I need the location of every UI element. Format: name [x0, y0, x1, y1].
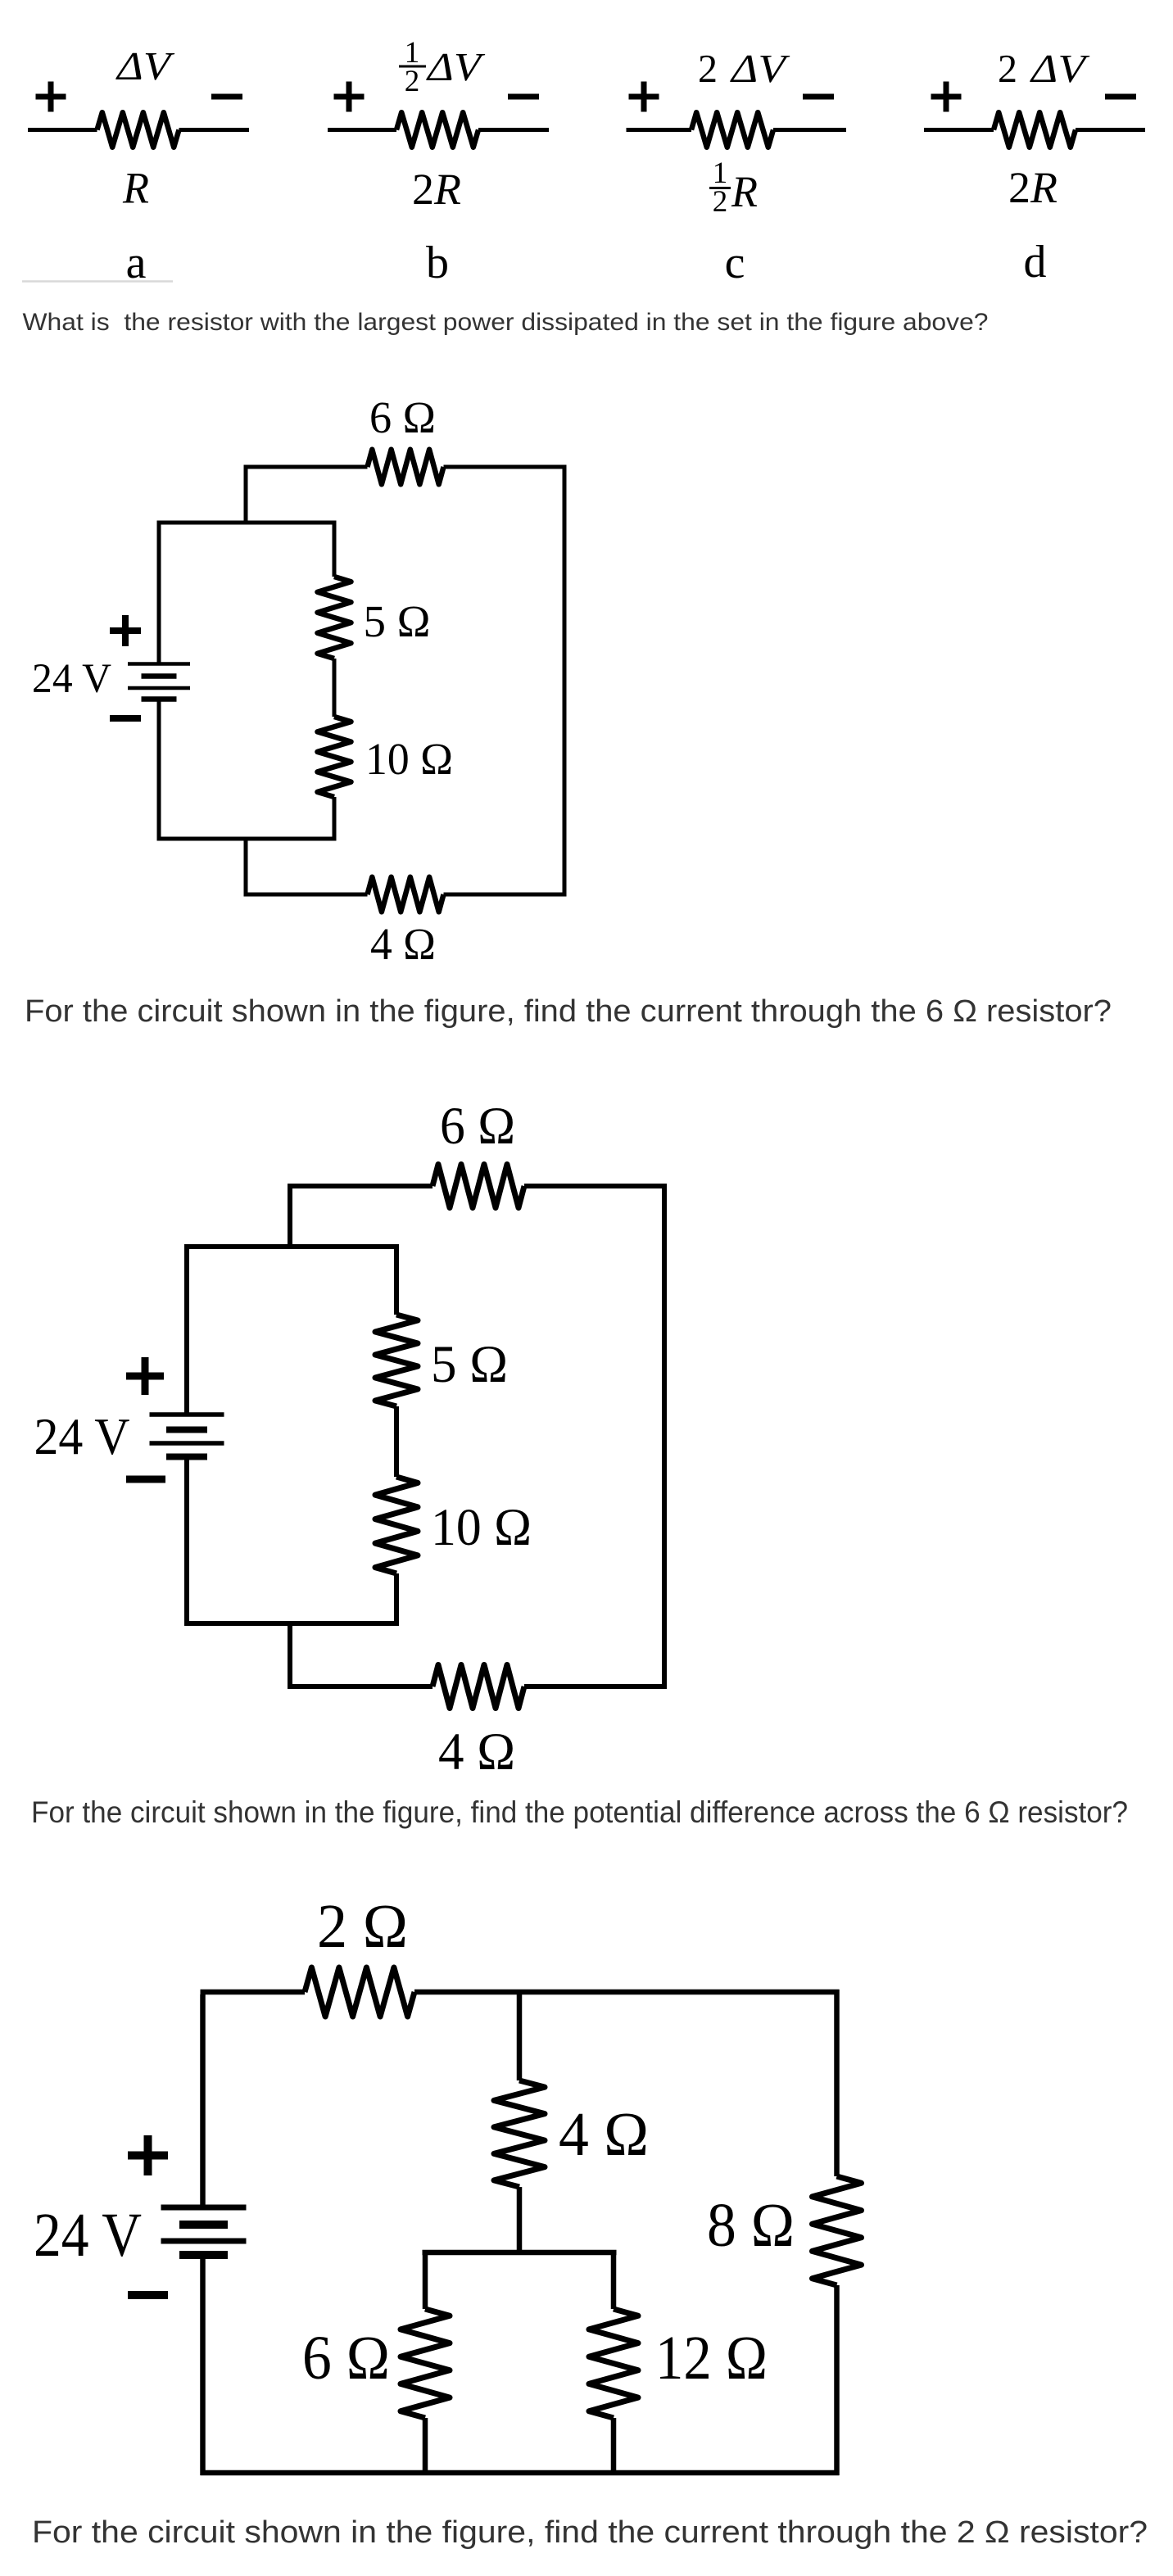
resistor 10 ohm (circuit 2): [375, 1477, 418, 1573]
svg-text:12 Ω: 12 Ω: [655, 2324, 768, 2393]
resistor 5 ohm (circuit 1): [318, 577, 351, 659]
svg-text:2: 2: [998, 46, 1017, 91]
resistance label ½R fraction (unit c): [709, 156, 731, 219]
svg-text:5 Ω: 5 Ω: [364, 596, 431, 646]
wire 6 ohm branch lower (circuit 3): [423, 2418, 428, 2473]
wire right lead (unit c): [773, 128, 846, 132]
svg-text:2: 2: [698, 46, 718, 91]
wire top right segment (circuit 1): [444, 465, 567, 469]
wire inner right lower (circuit 1): [333, 797, 337, 841]
wire left lead (unit d): [924, 128, 994, 132]
plus terminal battery (circuit 3): [128, 2135, 168, 2175]
svg-text:5 Ω: 5 Ω: [431, 1335, 508, 1394]
resistor 6 ohm (circuit 2): [433, 1165, 524, 1208]
minus terminal (unit d): [1105, 94, 1136, 100]
wire top left segment (circuit 2): [288, 1184, 433, 1188]
wire inner bottom (circuit 2): [184, 1621, 399, 1626]
svg-text:24 V: 24 V: [34, 2201, 142, 2270]
wire between 5 ohm and 10 ohm (circuit 2): [394, 1406, 399, 1477]
wire battery top lead (circuit 2): [184, 1244, 189, 1414]
svg-text:ΔV: ΔV: [426, 44, 486, 89]
plus terminal (unit a): [36, 82, 66, 112]
svg-text:2 Ω: 2 Ω: [317, 1892, 408, 1961]
svg-text:b: b: [426, 238, 449, 288]
answer blank underline (unit a): [22, 280, 173, 283]
wire bottom left segment (circuit 1): [244, 893, 368, 897]
wire left lead (unit c): [627, 128, 692, 132]
wire bottom right segment (circuit 2): [524, 1684, 667, 1689]
minus terminal (unit b): [508, 94, 539, 100]
wire top left segment (circuit 1): [244, 465, 368, 469]
resistor (unit d): [994, 112, 1076, 147]
wire inner bottom (circuit 1): [157, 837, 337, 841]
svg-text:R: R: [731, 167, 758, 216]
svg-text:4 Ω: 4 Ω: [370, 919, 436, 969]
wire bottom-left stub (circuit 1): [244, 839, 248, 897]
wire right side (circuit 2): [662, 1184, 667, 1689]
resistor 6 ohm (circuit 1): [368, 450, 444, 485]
wire left lead (unit a): [28, 128, 97, 132]
wire left side upper (circuit 3): [200, 1994, 206, 2207]
svg-text:R: R: [1030, 163, 1058, 212]
svg-text:For the circuit shown in the f: For the circuit shown in the figure, fin…: [31, 1795, 1128, 1829]
resistor 12 ohm (circuit 3): [589, 2309, 638, 2418]
wire right lead (unit b): [478, 128, 549, 132]
minus terminal (unit a): [211, 94, 242, 100]
wire battery top lead (circuit 1): [157, 521, 161, 664]
svg-text:R: R: [122, 164, 149, 213]
svg-text:4 Ω: 4 Ω: [438, 1723, 515, 1781]
wire bottom left segment (circuit 2): [288, 1684, 433, 1689]
svg-text:2: 2: [412, 165, 434, 214]
plus terminal (unit b): [334, 82, 365, 112]
plus terminal (unit c): [629, 82, 659, 112]
battery 24 V (circuit 1): [128, 664, 190, 699]
wire inner top (circuit 1): [157, 521, 337, 525]
svg-text:6 Ω: 6 Ω: [440, 1097, 515, 1156]
battery 24 V (circuit 3): [161, 2207, 247, 2255]
svg-text:4 Ω: 4 Ω: [559, 2100, 649, 2169]
resistor (unit c): [691, 112, 773, 147]
svg-text:d: d: [1024, 237, 1047, 287]
svg-text:For the circuit shown in the f: For the circuit shown in the figure, fin…: [25, 994, 1112, 1029]
minus terminal (unit c): [803, 94, 834, 100]
wire top left segment (circuit 3): [201, 1990, 306, 1995]
svg-text:ΔV: ΔV: [115, 43, 175, 88]
wire right lead (unit a): [179, 128, 250, 132]
wire inner right lower (circuit 2): [394, 1573, 399, 1626]
svg-text:What is the resistor with the: What is the resistor with the largest po…: [23, 309, 989, 336]
wire 12 ohm branch lower (circuit 3): [611, 2418, 617, 2473]
battery 24 V (circuit 2): [150, 1415, 224, 1457]
wire middle branch lower (circuit 3): [517, 2187, 523, 2252]
wire bottom right segment (circuit 1): [444, 893, 567, 897]
svg-text:24 V: 24 V: [34, 1407, 130, 1465]
wire top-left stub (circuit 1): [244, 465, 248, 523]
wire battery bottom lead (circuit 1): [157, 699, 161, 841]
plus terminal (unit d): [931, 82, 962, 112]
wire 6 ohm branch upper (circuit 3): [423, 2252, 428, 2309]
svg-text:c: c: [725, 238, 745, 288]
wire inner right upper (circuit 1): [333, 521, 337, 577]
resistor 6 ohm (circuit 3): [401, 2309, 450, 2418]
minus terminal battery (circuit 2): [126, 1476, 165, 1483]
resistor 8 ohm (circuit 3): [813, 2176, 862, 2285]
plus terminal battery (circuit 2): [126, 1357, 164, 1395]
wire top-left stub (circuit 2): [288, 1184, 292, 1247]
wire bottom (circuit 3): [201, 2470, 840, 2476]
svg-text:6 Ω: 6 Ω: [369, 392, 436, 442]
wire middle branch upper (circuit 3): [517, 1992, 523, 2080]
wire right side upper (circuit 3): [834, 1990, 840, 2176]
minus terminal battery (circuit 3): [128, 2291, 168, 2299]
wire bottom-left stub (circuit 2): [288, 1623, 292, 1689]
resistor (unit a): [97, 112, 179, 147]
svg-text:ΔV: ΔV: [1030, 46, 1090, 91]
wire left side lower (circuit 3): [200, 2256, 206, 2475]
value label ½ΔV fraction (unit b): [399, 36, 426, 98]
svg-text:For the circuit shown in the f: For the circuit shown in the figure, fin…: [32, 2515, 1148, 2550]
wire right side lower (circuit 3): [834, 2285, 840, 2475]
wire inner top (circuit 2): [184, 1244, 399, 1249]
resistor (unit b): [396, 112, 478, 147]
svg-text:2: 2: [1008, 163, 1030, 212]
svg-text:6 Ω: 6 Ω: [302, 2324, 390, 2393]
svg-text:8 Ω: 8 Ω: [707, 2191, 795, 2260]
svg-text:2: 2: [405, 65, 420, 98]
wire between 5 ohm and 10 ohm (circuit 1): [333, 659, 337, 717]
minus terminal battery (circuit 1): [110, 715, 141, 722]
resistor 2 ohm (circuit 3): [305, 1967, 414, 2017]
wire right lead (unit d): [1076, 128, 1145, 132]
wire top right segment (circuit 3): [414, 1990, 840, 1995]
plus terminal battery (circuit 1): [110, 615, 141, 646]
wire left lead (unit b): [328, 128, 396, 132]
resistor 4 ohm (circuit 2): [433, 1665, 524, 1709]
svg-text:10 Ω: 10 Ω: [365, 734, 453, 784]
resistor 4 ohm (circuit 3): [494, 2080, 545, 2187]
wire right side (circuit 1): [563, 465, 567, 897]
svg-text:24 V: 24 V: [32, 656, 111, 702]
svg-text:R: R: [433, 165, 461, 214]
wire inner box top (circuit 3): [423, 2250, 617, 2256]
wire 12 ohm branch upper (circuit 3): [611, 2252, 617, 2309]
resistor 5 ohm (circuit 2): [375, 1315, 418, 1406]
resistor 10 ohm (circuit 1): [318, 717, 351, 797]
svg-text:10 Ω: 10 Ω: [431, 1498, 532, 1557]
wire inner right upper (circuit 2): [394, 1244, 399, 1315]
wire battery bottom lead (circuit 2): [184, 1457, 189, 1626]
resistor 4 ohm (circuit 1): [368, 877, 444, 912]
wire top right segment (circuit 2): [524, 1184, 667, 1188]
svg-text:2: 2: [713, 185, 728, 219]
svg-text:ΔV: ΔV: [730, 46, 790, 91]
